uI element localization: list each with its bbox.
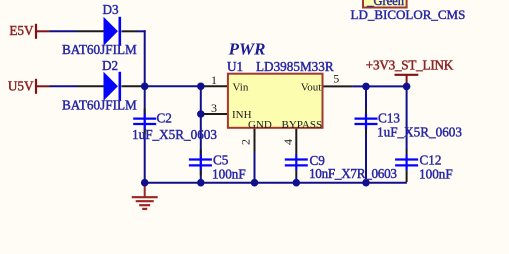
- svg-text:4: 4: [281, 139, 295, 145]
- svg-text:1: 1: [211, 73, 217, 87]
- svg-text:2: 2: [239, 139, 253, 145]
- svg-text:+3V3_ST_LINK: +3V3_ST_LINK: [366, 57, 454, 72]
- svg-text:C5: C5: [213, 153, 229, 168]
- svg-text:LD_BICOLOR_CMS: LD_BICOLOR_CMS: [351, 7, 466, 22]
- svg-text:E5V: E5V: [9, 23, 34, 38]
- svg-text:Vin: Vin: [233, 81, 249, 93]
- svg-text:100nF: 100nF: [212, 166, 246, 181]
- svg-text:D2: D2: [102, 58, 118, 73]
- svg-text:GND: GND: [248, 119, 272, 131]
- svg-text:LD3985M33R: LD3985M33R: [256, 59, 334, 74]
- svg-text:C2: C2: [157, 111, 172, 126]
- svg-text:C12: C12: [420, 153, 442, 168]
- svg-text:PWR: PWR: [228, 39, 266, 58]
- svg-text:3: 3: [211, 101, 217, 115]
- svg-text:100nF: 100nF: [419, 166, 453, 181]
- svg-text:C13: C13: [378, 110, 400, 125]
- svg-text:U1: U1: [227, 59, 243, 74]
- svg-text:1uF_X5R_0603: 1uF_X5R_0603: [377, 125, 462, 140]
- svg-text:1uF_X5R_0603: 1uF_X5R_0603: [132, 127, 217, 142]
- svg-text:10nF_X7R_0603: 10nF_X7R_0603: [309, 166, 397, 181]
- svg-text:U5V: U5V: [8, 79, 34, 94]
- svg-text:BAT60JFILM: BAT60JFILM: [62, 42, 137, 57]
- svg-text:D3: D3: [103, 2, 120, 17]
- svg-text:BAT60JFILM: BAT60JFILM: [62, 98, 137, 113]
- svg-text:_Green: _Green: [366, 0, 405, 8]
- svg-text:Vout: Vout: [301, 81, 322, 93]
- svg-text:BYPASS: BYPASS: [282, 119, 323, 131]
- svg-text:5: 5: [333, 71, 339, 85]
